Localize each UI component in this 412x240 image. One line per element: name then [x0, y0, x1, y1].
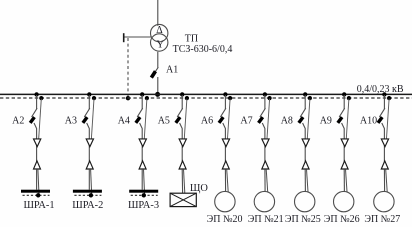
svg-text:А5: А5 — [158, 116, 170, 127]
svg-text:ЭП №25: ЭП №25 — [285, 214, 321, 225]
svg-text:А3: А3 — [65, 116, 77, 127]
svg-text:ЭП №20: ЭП №20 — [207, 214, 243, 225]
svg-text:ЩО: ЩО — [190, 183, 208, 194]
svg-text:А1: А1 — [166, 64, 178, 75]
svg-text:ШРА-2: ШРА-2 — [72, 200, 103, 211]
svg-text:ЭП №26: ЭП №26 — [324, 214, 360, 225]
svg-text:А4: А4 — [118, 116, 130, 127]
svg-text:Y: Y — [156, 39, 164, 51]
svg-text:А6: А6 — [201, 116, 213, 127]
svg-text:А8: А8 — [281, 116, 293, 127]
svg-text:ЭП №27: ЭП №27 — [364, 214, 400, 225]
svg-text:ШРА-3: ШРА-3 — [128, 200, 159, 211]
svg-text:ТП: ТП — [185, 33, 198, 44]
svg-text:ЭП №21: ЭП №21 — [248, 214, 284, 225]
svg-text:ШРА-1: ШРА-1 — [23, 200, 54, 211]
svg-text:Δ: Δ — [156, 25, 163, 36]
svg-text:ТСЗ-630-6/0,4: ТСЗ-630-6/0,4 — [173, 44, 233, 55]
svg-text:А9: А9 — [320, 116, 332, 127]
svg-text:0,4/0,23 кВ: 0,4/0,23 кВ — [357, 84, 404, 95]
svg-text:А10: А10 — [360, 116, 377, 127]
svg-text:А2: А2 — [12, 116, 24, 127]
svg-text:А7: А7 — [240, 116, 252, 127]
